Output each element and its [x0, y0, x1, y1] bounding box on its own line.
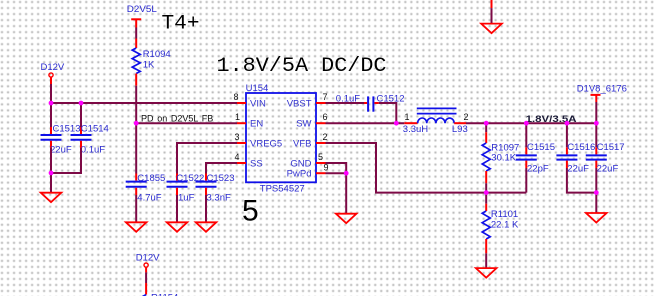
node C1517 gnd [594, 190, 599, 195]
svg-text:VIN: VIN [250, 99, 266, 110]
wire C1513 to ground junction [50, 148, 52, 193]
svg-text:VFB: VFB [293, 139, 311, 150]
capacitor C1855 [126, 173, 166, 203]
svg-text:2: 2 [464, 112, 469, 122]
ground right [586, 213, 607, 223]
resistor R1097 [482, 123, 519, 192]
ground top right [481, 24, 502, 33]
ground under C1855 [126, 222, 147, 232]
svg-text:6: 6 [323, 112, 328, 122]
wire C1514 bottom to junction [51, 148, 81, 173]
svg-text:C1523: C1523 [207, 173, 235, 184]
svg-text:3.3nF: 3.3nF [207, 192, 231, 203]
svg-text:22uF: 22uF [50, 145, 72, 156]
svg-text:C1514: C1514 [81, 124, 109, 135]
svg-text:4.7uF: 4.7uF [137, 192, 161, 203]
svg-text:C1516: C1516 [567, 142, 595, 153]
capacitor C1515 [516, 142, 555, 174]
capacitor C1523 [196, 173, 235, 203]
svg-text:1: 1 [235, 112, 240, 122]
wire C1515 bottom [525, 168, 527, 193]
offpage connector D12V top [41, 62, 65, 84]
svg-text:C1855: C1855 [137, 173, 165, 184]
capacitor C1522 [167, 173, 205, 203]
wire C1517 drop [595, 123, 597, 147]
node VIN/D12V [49, 101, 54, 106]
wire SW [326, 122, 405, 124]
svg-text:22.1 K: 22.1 K [491, 220, 519, 231]
pin 9 PwPd [316, 172, 326, 174]
svg-text:C1517: C1517 [597, 142, 625, 153]
op-amp U154 TPS54527 body [246, 83, 316, 195]
ground under U154 [336, 214, 357, 224]
wire IC gnd drop [345, 173, 347, 214]
svg-text:4: 4 [235, 152, 240, 162]
wire node to ground right [595, 193, 597, 213]
svg-text:L93: L93 [452, 124, 468, 135]
capacitor C1514 [71, 124, 109, 156]
svg-text:R1154: R1154 [151, 293, 178, 296]
wire EN [136, 122, 237, 124]
svg-text:C1515: C1515 [527, 142, 555, 153]
svg-text:1K: 1K [143, 59, 155, 70]
node C1514 tap [79, 101, 84, 106]
svg-text:D12V: D12V [41, 62, 65, 73]
pin 8 VIN [237, 102, 246, 104]
capacitor C1512 [336, 94, 405, 112]
power symbol D1V8_6176 [577, 83, 627, 102]
resistor R1101 [482, 193, 519, 269]
power symbol D2V5L [127, 4, 157, 27]
wire SS to C1523 [206, 163, 237, 174]
svg-text:C1513: C1513 [53, 124, 81, 135]
svg-text:D1V8_6176: D1V8_6176 [577, 83, 627, 94]
svg-text:22uF: 22uF [597, 163, 619, 174]
wire C1523 to ground [205, 195, 207, 222]
wire VREG5 to C1522 [177, 143, 237, 174]
svg-text:30.1K: 30.1K [491, 153, 516, 164]
node out C1516 [565, 121, 570, 126]
pin 6 SW [316, 122, 326, 124]
wire top right gnd stem [491, 0, 493, 8]
svg-text:22pF: 22pF [527, 163, 549, 174]
wire D2V5L to R1094 [135, 28, 137, 39]
capacitor C1517 [586, 142, 625, 174]
ground under C1523 [196, 222, 217, 232]
svg-text:T4+: T4+ [162, 13, 200, 36]
svg-text:0.1uF: 0.1uF [81, 145, 105, 156]
wire VFB route [326, 143, 527, 193]
svg-text:TPS54527: TPS54527 [260, 184, 305, 195]
ground under C1513 [41, 193, 62, 203]
pin 5 GND [316, 162, 326, 164]
wire bottom D12V [145, 272, 147, 283]
pin 7 VBST [316, 102, 326, 104]
wire output rail [466, 122, 596, 124]
wire EN node down to C1855 [135, 123, 137, 173]
svg-text:2: 2 [323, 132, 328, 142]
wire GND pin to node [326, 163, 347, 173]
node FB [484, 190, 489, 195]
node EN [134, 121, 139, 126]
svg-text:U154: U154 [246, 83, 269, 94]
wire C1516 drop [566, 123, 568, 147]
inductor L93 [403, 108, 469, 134]
svg-text:PwPd: PwPd [287, 169, 312, 180]
svg-text:D12V: D12V [136, 252, 160, 263]
node IC gnd [344, 171, 349, 176]
wire C1512 to SW node [374, 102, 378, 104]
pin 4 SS [237, 162, 246, 164]
svg-text:5: 5 [242, 195, 259, 228]
svg-text:PD on D2V5L FB: PD on D2V5L FB [141, 114, 213, 124]
wire PwPd pin to node [326, 172, 347, 174]
pin 1 EN [237, 122, 246, 124]
node out C1517 [594, 121, 599, 126]
svg-text:22uF: 22uF [567, 163, 589, 174]
wire C1513 drop [50, 103, 52, 127]
wire C1516 bottom to node [567, 168, 596, 193]
svg-text:SW: SW [296, 119, 311, 130]
offpage connector D12V bottom [136, 252, 160, 272]
wire C1855 to ground [135, 195, 137, 222]
wire D12V drop [50, 84, 52, 103]
svg-text:VREG5: VREG5 [250, 139, 282, 150]
wire VIN rail [51, 102, 237, 104]
svg-text:SS: SS [250, 159, 263, 170]
svg-text:D2V5L: D2V5L [127, 4, 157, 15]
ground under R1101 [476, 268, 497, 278]
svg-text:1uF: 1uF [178, 192, 195, 203]
svg-text:EN: EN [250, 119, 263, 130]
wire C1517 bottom [595, 168, 597, 193]
svg-text:R1101: R1101 [491, 209, 518, 220]
pin 2 VFB [316, 142, 326, 144]
resistor bottom partial [145, 283, 147, 295]
capacitor C1513 [41, 124, 81, 156]
capacitor C1516 [556, 142, 595, 174]
svg-text:7: 7 [323, 92, 328, 102]
node out C1515 [524, 121, 529, 126]
node out R1097 [484, 121, 489, 126]
ground under C1522 [167, 222, 188, 232]
svg-text:VBST: VBST [287, 99, 312, 110]
wire C1515 drop [525, 123, 527, 147]
wire R1094 down to EN node [135, 86, 137, 124]
svg-text:0.1uF: 0.1uF [336, 94, 360, 105]
svg-text:1: 1 [405, 112, 410, 122]
svg-text:3: 3 [235, 132, 240, 142]
svg-text:5: 5 [318, 152, 323, 162]
svg-text:1.8V/5A DC/DC: 1.8V/5A DC/DC [217, 55, 387, 78]
svg-text:8: 8 [234, 92, 239, 102]
resistor R1094 [132, 39, 171, 86]
wire D1V8 drop [595, 102, 597, 123]
pin 3 VREG5 [237, 142, 246, 144]
wire VBST to C1512 [326, 102, 365, 104]
wire C1514 drop [80, 103, 82, 127]
svg-text:3.3uH: 3.3uH [403, 124, 428, 135]
node SW [394, 121, 399, 126]
wire C1522 to ground [176, 195, 178, 222]
node C1513/C1514 gnd [49, 171, 54, 176]
